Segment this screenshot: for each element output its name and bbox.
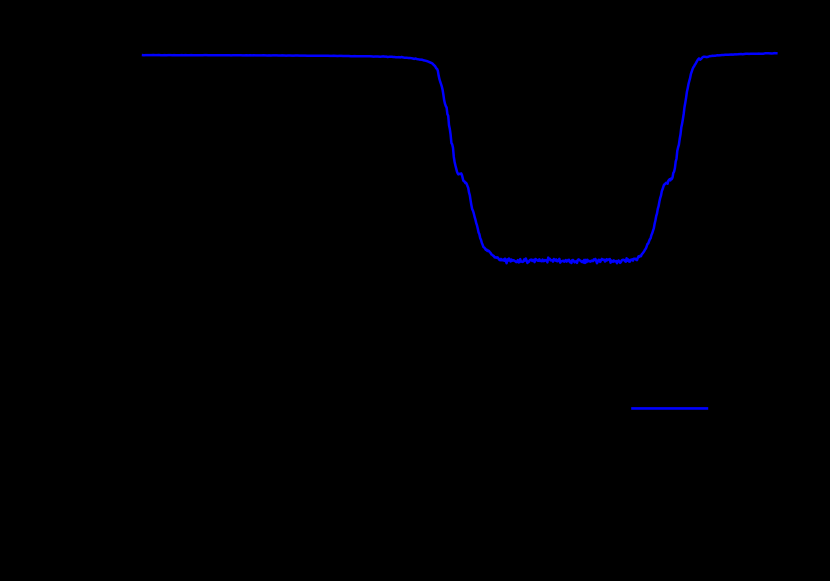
transit light curve (blue) <box>142 53 778 263</box>
legend line sample (blue) <box>631 407 708 410</box>
